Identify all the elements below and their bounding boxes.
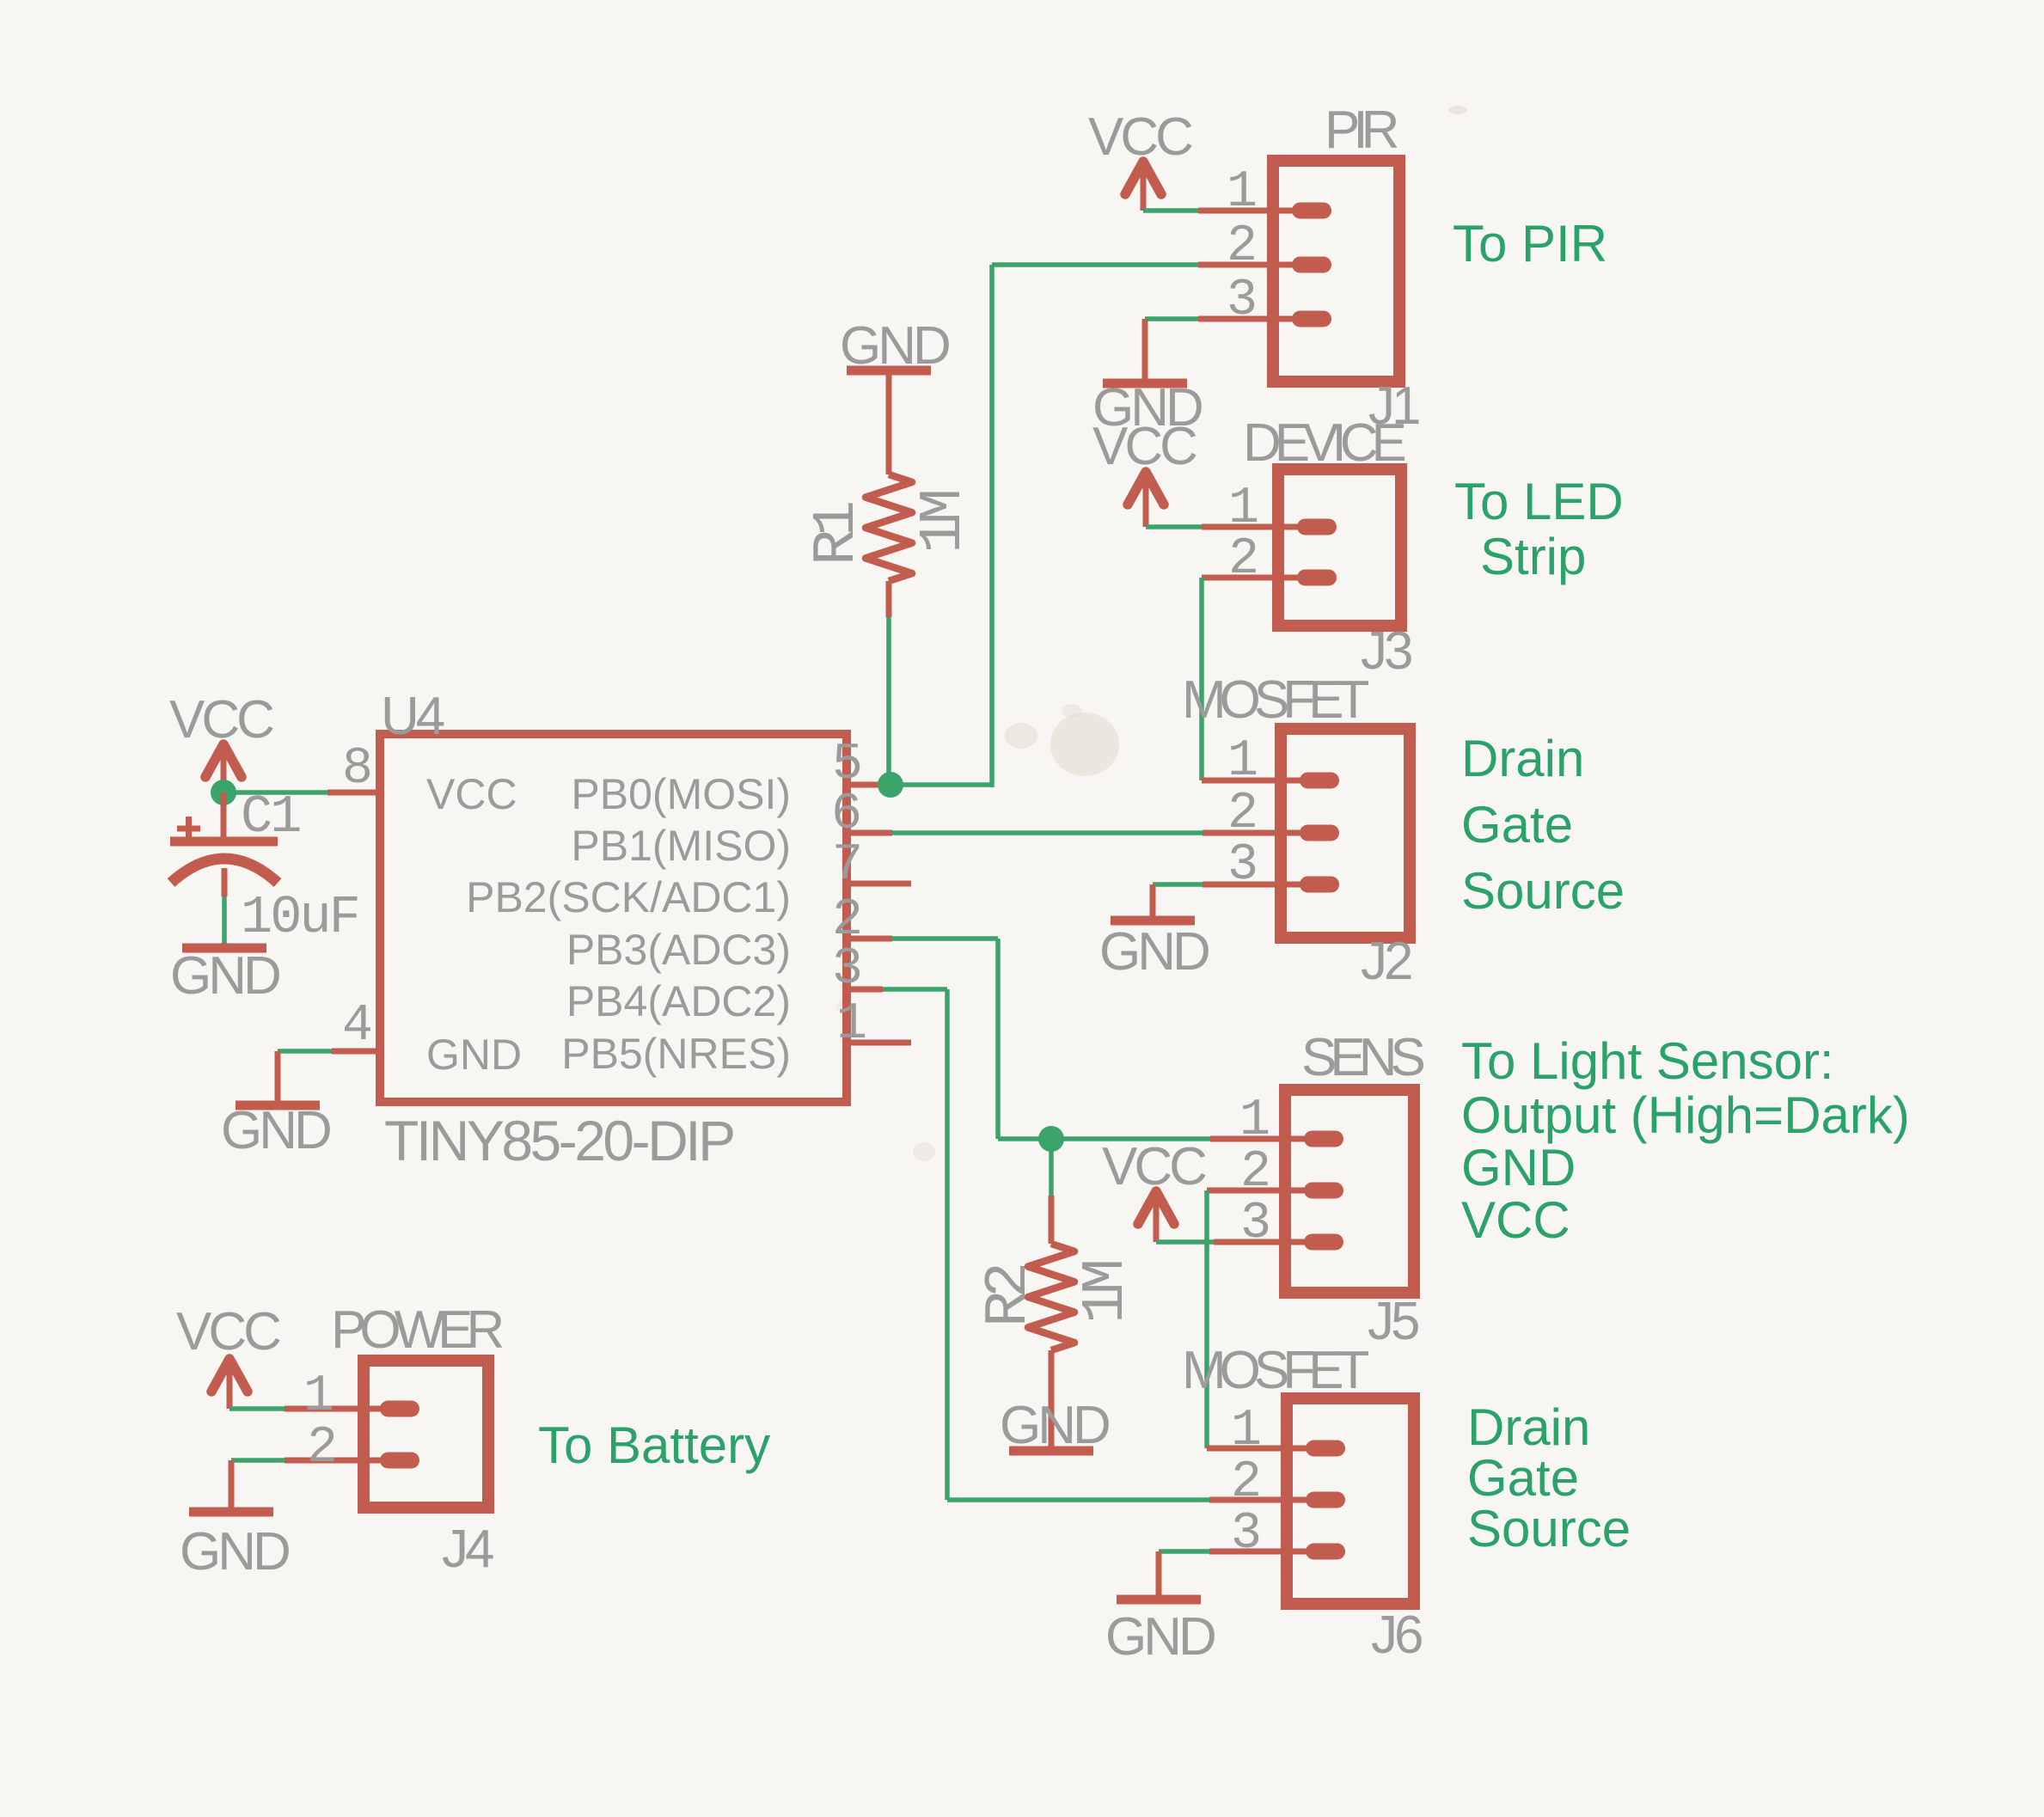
svg-text:GND: GND [1099, 922, 1209, 982]
wire J4 pin 2 to GND (green) [231, 1458, 285, 1463]
svg-text:J6: J6 [1371, 1606, 1422, 1665]
wire VCC to J1 pin 1 (green) [1143, 208, 1198, 213]
svg-text:SENS: SENS [1301, 1028, 1423, 1087]
svg-text:10uF: 10uF [241, 887, 358, 948]
svg-text:1: 1 [836, 995, 866, 1054]
pin J4.2 (red) [285, 1458, 388, 1464]
svg-text:2: 2 [1227, 785, 1255, 843]
svg-text:PB5(NRES): PB5(NRES) [561, 1030, 791, 1078]
svg-text:PB1(MISO): PB1(MISO) [571, 822, 791, 870]
svg-text:1: 1 [1239, 1092, 1269, 1150]
resistor R2 top stub (red) [1049, 1196, 1055, 1244]
ground symbol GND at R1 top [847, 366, 931, 376]
wire VCC to J4 pin 1 (green) [229, 1406, 285, 1411]
svg-text:VCC: VCC [426, 770, 517, 818]
wire to J6 pin 2 (green) [947, 1497, 1209, 1502]
svg-text:1: 1 [1227, 163, 1256, 222]
capacitor C1 bottom plate (polarized arc) [171, 859, 278, 883]
connector J4 body [364, 1361, 488, 1508]
svg-text:PB4(ADC2): PB4(ADC2) [566, 977, 791, 1025]
wire C1 to GND (green) [222, 896, 227, 945]
svg-text:GND: GND [426, 1031, 522, 1079]
svg-text:To PIR: To PIR [1453, 215, 1607, 272]
svg-text:PIR: PIR [1325, 101, 1398, 160]
svg-text:1: 1 [1227, 732, 1257, 791]
svg-text:7: 7 [832, 836, 860, 895]
svg-text:Drain: Drain [1467, 1398, 1590, 1456]
wire down to J5 pin 1 row (green) [995, 939, 1001, 1139]
svg-text:3: 3 [832, 940, 860, 999]
svg-text:2: 2 [1227, 217, 1254, 276]
svg-text:2: 2 [1228, 530, 1256, 589]
svg-text:1: 1 [1231, 1402, 1260, 1460]
wire to J1 pin 2 (green) [992, 262, 1198, 267]
resistor R1 zigzag [866, 474, 912, 581]
svg-text:PB2(SCK/ADC1): PB2(SCK/ADC1) [466, 873, 791, 921]
ground symbol GND at J1 pin 3 [1142, 319, 1148, 380]
junction dot node U4 pin 5 / R1 / J1.2 [878, 772, 903, 798]
ground symbol GND at J2 pin 3 [1150, 884, 1156, 917]
ground symbol GND at J4 pin 2 [229, 1460, 235, 1509]
resistor R2 zigzag [1028, 1244, 1074, 1350]
pin stub U4 pin 8 (red) [327, 790, 378, 796]
pin stub U4 pin 5 (red) [847, 782, 892, 788]
pin J4.1 (red) [285, 1406, 388, 1412]
svg-text:VCC: VCC [176, 1302, 280, 1361]
wire U4 pin 6 to J2 pin 2 (green) [892, 830, 1203, 835]
pin stub U4 pin 4 (red) [332, 1049, 378, 1055]
svg-text:3: 3 [1227, 836, 1256, 895]
pin J6.2 (red) [1209, 1497, 1313, 1503]
connector J3 body [1278, 469, 1401, 626]
capacitor C1 top plate [170, 837, 278, 847]
svg-text:2: 2 [1231, 1453, 1258, 1512]
wire vertical up to J1 pin 2 (green) [989, 265, 994, 787]
capacitor C1 positive stem [221, 792, 227, 841]
svg-text:Strip: Strip [1480, 528, 1586, 585]
pin J5.1 (red) [1210, 1136, 1312, 1142]
svg-text:2: 2 [307, 1419, 334, 1477]
svg-text:MOSFET: MOSFET [1182, 670, 1368, 730]
svg-text:C1: C1 [241, 786, 300, 847]
svg-text:GND: GND [1461, 1139, 1576, 1196]
resistor R2 bottom stub (red) [1049, 1350, 1055, 1447]
junction dot node J5.1 / R2 [1038, 1126, 1064, 1152]
svg-text:3: 3 [1240, 1195, 1269, 1253]
ground symbol GND at C1 [222, 943, 228, 948]
svg-text:GND: GND [1105, 1607, 1215, 1667]
wire J6 pin 3 to GND (green) [1159, 1549, 1209, 1554]
pin J3.1 (red) [1202, 524, 1305, 530]
pin J6.1 (red) [1207, 1446, 1313, 1452]
wire VCC net to U4 pin 8 (green) [223, 790, 327, 795]
wire U4 pin 3 east (green) [883, 987, 947, 992]
svg-text:3: 3 [1227, 272, 1255, 330]
ground symbol GND at J6 pin 3 [1156, 1551, 1162, 1597]
svg-text:R2: R2 [976, 1265, 1043, 1327]
junction dot node VCC/C1/pin8 [211, 780, 236, 805]
ground symbol GND at U4 pin 4 [275, 1051, 281, 1103]
resistor R1 bottom stub (red) [886, 581, 892, 617]
svg-text:PB0(MOSI): PB0(MOSI) [571, 770, 791, 818]
pin stub U4 pin 6 (red) [847, 830, 892, 836]
svg-text:To LED: To LED [1454, 473, 1624, 530]
wire J1 pin 3 to GND (green) [1145, 316, 1198, 321]
svg-text:J3: J3 [1361, 621, 1411, 681]
pin J1.2 (red) [1198, 262, 1300, 268]
svg-text:POWER: POWER [331, 1300, 502, 1360]
svg-text:PB3(ADC3): PB3(ADC3) [566, 926, 791, 974]
svg-text:1M: 1M [1073, 1262, 1141, 1324]
wire VCC to J3 pin 1 (green) [1146, 524, 1202, 529]
connector J2 body [1281, 729, 1410, 938]
svg-text:Gate: Gate [1461, 796, 1573, 853]
svg-text:1M: 1M [910, 492, 978, 554]
pin J1.3 (red) [1198, 316, 1300, 322]
svg-text:Source: Source [1467, 1500, 1631, 1557]
IC U4 ATtiny85 body [380, 734, 847, 1102]
wire to J5 pin 1 (green) [998, 1136, 1210, 1141]
svg-text:DEVICE: DEVICE [1243, 413, 1404, 473]
svg-text:Source: Source [1461, 862, 1625, 920]
svg-text:2: 2 [1240, 1143, 1268, 1202]
svg-text:J4: J4 [442, 1520, 493, 1579]
svg-text:To Light Sensor:: To Light Sensor: [1461, 1032, 1834, 1090]
wire pin5 node east (green) [890, 782, 992, 787]
svg-text:GND: GND [170, 946, 279, 1006]
pin J1.1 (red) [1198, 208, 1300, 214]
svg-text:8: 8 [342, 740, 370, 798]
svg-text:MOSFET: MOSFET [1182, 1341, 1368, 1400]
svg-text:GND: GND [221, 1101, 330, 1160]
pin stub U4 pin 7 unconnected (red) [847, 881, 911, 887]
pin stub U4 pin 3 (red) [847, 987, 883, 993]
wire U4 pin 4 to GND (green) [278, 1049, 332, 1054]
svg-text:R1: R1 [804, 503, 872, 566]
wire J3 pin 2 down to J2 pin 1 (green) [1199, 578, 1204, 780]
svg-text:J2: J2 [1361, 932, 1411, 991]
svg-text:J5: J5 [1368, 1292, 1418, 1351]
connector J6 body [1287, 1398, 1414, 1604]
svg-text:U4: U4 [381, 687, 444, 746]
pin J3.2 (red) [1202, 575, 1305, 581]
svg-text:GND: GND [180, 1522, 289, 1581]
svg-text:1: 1 [1228, 480, 1258, 538]
svg-text:Drain: Drain [1461, 730, 1584, 787]
ground symbol GND at R2 bottom [1009, 1447, 1093, 1456]
pin J5.3 (red) [1214, 1239, 1312, 1245]
pin J2.3 (red) [1203, 882, 1307, 888]
wire R1 to U4 pin 5 node (green) [886, 617, 891, 785]
svg-text:TINY85-20-DIP: TINY85-20-DIP [384, 1109, 733, 1172]
pin J2.2 (red) [1203, 830, 1307, 836]
svg-text:VCC: VCC [1461, 1191, 1570, 1249]
wire U4 pin 2 east (green) [892, 936, 998, 941]
svg-text:6: 6 [831, 786, 860, 844]
connector J1 body [1273, 161, 1399, 382]
wire J5 pin 2 down to J6 pin 1 (green) [1204, 1190, 1209, 1448]
pin J2.1 (red) [1202, 778, 1307, 784]
capacitor C1 plus sign [177, 826, 200, 832]
capacitor C1 lower stem (red) [222, 868, 228, 896]
pin stub U4 pin 2 (red) [847, 936, 892, 942]
svg-text:Output (High=Dark): Output (High=Dark) [1461, 1086, 1910, 1144]
svg-text:1: 1 [303, 1367, 333, 1426]
svg-text:To Battery: To Battery [538, 1416, 770, 1474]
wire J2 pin 3 to GND (green) [1153, 882, 1203, 887]
connector J5 body [1285, 1090, 1414, 1293]
wire R2 top (green) [1049, 1139, 1054, 1196]
pin stub U4 pin 1 unconnected (red) [847, 1040, 911, 1046]
pin J5.2 (red) [1207, 1188, 1312, 1194]
svg-text:Gate: Gate [1467, 1449, 1579, 1507]
pin J6.3 (red) [1209, 1549, 1313, 1555]
svg-text:3: 3 [1231, 1505, 1259, 1563]
wire VCC to J5 pin 3 (green) [1156, 1239, 1214, 1245]
svg-text:4: 4 [342, 997, 370, 1055]
wire down to J6 pin 2 row (green) [945, 989, 950, 1500]
